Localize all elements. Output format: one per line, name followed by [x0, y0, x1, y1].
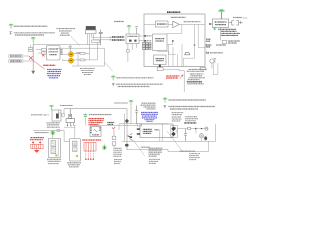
bold toshiba TLP620 label: [184, 122, 197, 124]
IC right area verticals: [169, 44, 183, 67]
net label D+: [110, 36, 125, 38]
callout diagonal pack: [105, 62, 113, 71]
small component on adapter output: [62, 114, 65, 116]
IC right wires: [184, 24, 206, 66]
legend row 2 text b: [116, 83, 163, 85]
wire flag stem down: [130, 105, 132, 124]
legend row 3 text c: [170, 108, 198, 110]
junction oval: [125, 144, 129, 147]
legend row 2 text: [116, 77, 154, 79]
wire bottom bus lower: [168, 141, 209, 151]
wire D+ line: [92, 36, 112, 38]
green marker circle 2: [102, 144, 107, 150]
red note SBD line 1: [166, 75, 179, 77]
junction dot inside IC: [172, 40, 174, 42]
callout diagonal opto: [167, 131, 183, 152]
wire tag down: [85, 117, 87, 126]
resistor R12 on row1: [74, 52, 90, 54]
resistor R10: [36, 49, 46, 52]
resistor on under-IC wire: [157, 68, 163, 71]
wire boost row: [144, 23, 205, 25]
red warning text block: [89, 119, 105, 125]
note column right of outlet: [113, 148, 122, 163]
wire verticals to opto: [160, 124, 163, 142]
red switch symbol SW1: [84, 143, 96, 160]
AC caption: [35, 132, 49, 134]
VBUS power block U6: [213, 19, 229, 28]
wire flag stem: [128, 30, 130, 34]
main IC name label: [167, 11, 181, 13]
small component pair below: [222, 40, 240, 43]
red check annotation: [112, 127, 115, 129]
legend row 2 green symbol: [111, 76, 116, 81]
wire LED row 1: [60, 54, 69, 60]
junction dot right: [194, 44, 196, 46]
wire corner down: [118, 124, 120, 130]
USB plug connector P1: [85, 26, 96, 48]
green marker circle 1: [51, 131, 56, 136]
annotation text under pack: [80, 69, 95, 75]
VBUS notes right black: [218, 29, 240, 35]
charge control caption: [60, 105, 73, 107]
legend row 3 green symbol: [163, 98, 168, 103]
connector label J1 (cell +): [9, 54, 24, 57]
diode D2: [206, 52, 209, 54]
pin header grid: [143, 43, 151, 50]
note text under IC a: [189, 68, 207, 70]
charge control block U4: [153, 34, 168, 51]
legend row 2 text c: [118, 86, 150, 88]
wire U2 to main IC b: [139, 40, 144, 42]
label text above right: [114, 21, 124, 23]
opto notes right col: [185, 117, 198, 121]
red callout diagonal: [32, 60, 45, 70]
note block under amp: [149, 148, 163, 163]
small note lines below legend: [172, 112, 184, 114]
label right of 5V: [216, 44, 226, 46]
power flag green battery top: [31, 37, 36, 42]
wire P line: [127, 148, 168, 150]
junction dot row: [195, 128, 197, 130]
note open-drain with arrow: [184, 22, 213, 25]
ground arrow battery: [31, 71, 35, 75]
wire bus 123.8: [119, 123, 168, 125]
legend 2 ground bullet symbol: [9, 32, 12, 35]
callout diagonal to connector: [71, 36, 80, 46]
net label D-: [110, 39, 125, 41]
note last line: [187, 83, 204, 85]
wire VBUS down: [220, 28, 222, 41]
resistor R30: [188, 127, 191, 130]
wire into outlet top: [74, 127, 76, 139]
wire U2 to main IC a: [139, 35, 144, 37]
wire under transistor legs: [64, 126, 75, 128]
resistor R20: [127, 50, 130, 53]
green tag charge: [83, 114, 87, 116]
wire feedback vertical: [167, 24, 182, 33]
mosfet arrow Q3: [128, 134, 133, 141]
wire opto output row: [177, 128, 196, 130]
wire AC input bus: [33, 130, 70, 141]
opto notes left col: [172, 117, 182, 121]
dark bead load: [204, 136, 207, 140]
AC adapter PS1: [52, 109, 62, 121]
power flag green VBUS: [218, 9, 225, 19]
LED D3 circle: [210, 59, 216, 64]
IC right pin stubs: [60, 49, 62, 54]
USB power IC U2: [126, 34, 139, 44]
LED lamp DS1: [68, 52, 73, 57]
relay 5V label: [233, 17, 243, 19]
blue note text block: [47, 69, 62, 77]
charger label: [107, 122, 114, 124]
wire marker down to relay: [52, 135, 54, 139]
transistor Q2 TO-92: [66, 109, 75, 127]
resistor R13 on row2: [74, 59, 98, 61]
lamp load L1: [199, 134, 203, 138]
wire bus to charger: [90, 124, 138, 126]
callout diagonal amp: [133, 140, 145, 156]
red note text protection: [43, 64, 56, 66]
AC100V input label: [31, 114, 49, 115]
vertical wire к2: [96, 42, 98, 60]
vertical wire к1: [88, 48, 90, 60]
legend row 3 text b: [168, 106, 215, 108]
wire top bus battery: [33, 42, 101, 45]
red caption relay coil: [30, 138, 44, 140]
buffer amp triangle: [173, 21, 180, 28]
small component on AC bus: [57, 129, 60, 131]
wire main 5V bus: [64, 108, 127, 110]
legend row 3 bullet: [164, 105, 167, 108]
wire right side vertical: [104, 48, 106, 66]
adapter caption: [47, 123, 61, 127]
note block bottom right: [189, 154, 200, 160]
wire under IC jog: [160, 69, 184, 92]
red caption switch: [82, 139, 101, 141]
wire bottom bus upper: [122, 124, 216, 142]
junction dot row 2: [201, 128, 202, 129]
wire from J2: [23, 60, 35, 62]
charger IC U7: [90, 125, 101, 136]
resistor bottom 5V area: [199, 67, 206, 70]
relay label tail arrow: [243, 17, 248, 19]
red arrow to wire: [180, 75, 183, 79]
amp IC U8: [137, 124, 176, 138]
legend 2 note text line a: [14, 32, 55, 34]
wire loads down: [196, 129, 206, 142]
protection IC U10: [47, 45, 61, 60]
legend row 2 bullet: [112, 83, 115, 86]
wire D- line: [94, 39, 112, 41]
red annotation X mark: [29, 56, 33, 59]
red note SBD line 2: [166, 77, 178, 79]
U2 bottom pins with resistors: [128, 44, 137, 63]
small box on top wire: [92, 40, 100, 42]
wire LED down: [211, 63, 213, 68]
resistor tick right of LEDs: [77, 52, 80, 66]
legend row 3 text: [168, 99, 206, 101]
bottom wire of pack: [72, 65, 104, 67]
wire vertical with junction: [126, 109, 128, 150]
IC left edge pin marks: [144, 35, 151, 37]
label 5V supply dark: [206, 45, 212, 47]
capacitor C1: [99, 30, 103, 45]
annotation text block battery pack: [57, 29, 76, 36]
red annotation X mark 2: [42, 54, 45, 56]
legend 1 line 1 note text: [14, 25, 48, 27]
thermistor TH1: [28, 45, 32, 52]
small box end of row: [205, 127, 208, 130]
note block right-aligned: [141, 103, 156, 109]
blue note block relay: [141, 112, 158, 121]
label 5V relay area: [114, 102, 128, 104]
note text under IC b: [187, 70, 204, 72]
main IC outline BY-K24-TR: [144, 14, 205, 67]
resistor R11: [38, 52, 46, 54]
label AC line dark upper: [206, 39, 211, 41]
dark pin below U5: [159, 65, 161, 67]
red connector symbol: [31, 141, 43, 152]
relay K1: [49, 139, 61, 158]
diode D2 label: [210, 52, 223, 54]
junction blob cross: [125, 119, 128, 123]
note right of tag: [89, 114, 111, 116]
boost block U3: [156, 21, 169, 27]
power flag green relay line: [129, 100, 134, 105]
logic block U5: [154, 55, 167, 65]
outlet box CN1: [70, 139, 81, 162]
capacitor C4: [135, 106, 138, 124]
capacitor C2 near flag: [135, 27, 138, 34]
optocoupler U9: [171, 126, 178, 138]
legend 2 note text line b: [15, 34, 44, 36]
small box on bus: [137, 124, 141, 126]
relay caption: [47, 159, 61, 163]
LED lamp DS2: [68, 58, 73, 63]
caps on vertical line: [112, 130, 116, 147]
green tag below VBUS box: [214, 28, 217, 30]
capacitor above LED: [69, 45, 72, 52]
wire second bus: [57, 47, 105, 49]
note block panasonic: [188, 74, 205, 80]
switch SW2: [229, 21, 243, 25]
bracket wires right: [213, 63, 218, 75]
connector label J2 (cell -): [9, 59, 24, 62]
P=25VA label: [141, 146, 150, 148]
outlet caption: [67, 163, 81, 167]
wire adapter output: [61, 109, 64, 115]
note open-drain upper: [171, 16, 186, 18]
wire row continue: [196, 128, 209, 130]
parallel wire second vertical: [123, 114, 125, 142]
bold toshiba note: [187, 81, 203, 83]
wire from J1: [23, 55, 29, 57]
wire charge block right jog: [157, 40, 176, 54]
mosfet Q1 inside IC: [185, 52, 191, 55]
wire battery negative vertical: [32, 45, 34, 71]
power flag green AC adapter: [49, 105, 54, 110]
legend 1 green power-net symbol: [9, 24, 14, 29]
capacitor C5: [184, 129, 187, 142]
power flag green charger input: [127, 25, 132, 30]
note line bottom right a: [180, 150, 195, 152]
